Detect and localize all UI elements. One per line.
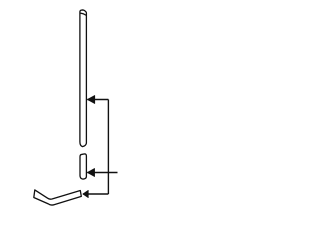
long rod top cap inner line [80,13,86,15]
arrow C head [83,190,89,197]
arrow A head [87,95,95,103]
bent rod [34,190,82,205]
arrow B head [87,168,94,176]
arrow C leader line [83,193,108,195]
short segment (capsule) [80,154,86,179]
vertical leader line [107,100,109,195]
arrow B leader line [87,172,117,174]
arrow A leader line [87,99,108,101]
long rod body [80,10,87,147]
